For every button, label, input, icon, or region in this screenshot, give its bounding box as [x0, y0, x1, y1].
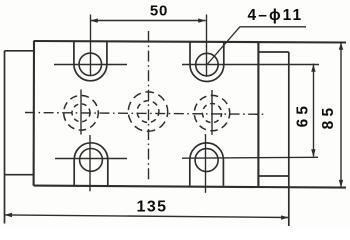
svg-text:65: 65	[294, 102, 311, 128]
dim 50 line	[90, 20, 205, 22]
dim 85 line	[340, 42, 342, 187]
plate bottom edge (with extension to 85 dim)	[34, 186, 346, 188]
middle horizontal dash-dot centerline	[25, 113, 266, 115]
bottom-left hole slot	[74, 143, 108, 186]
middle-center port hole inner dashed circle	[137, 101, 159, 123]
dim 65 top arrowhead	[311, 64, 315, 72]
dim 65 bottom arrowhead	[311, 149, 315, 157]
right flange outer edge + 135 extension	[288, 52, 290, 226]
dim 65 line	[313, 64, 315, 157]
plate left edge	[33, 41, 36, 186]
bottom-right hole circle	[195, 149, 218, 172]
leader line for 4-phi11	[207, 27, 306, 65]
bottom-left hole vertical centerline	[89, 135, 91, 191]
dim 135 line	[5, 215, 289, 218]
svg-text:50: 50	[150, 3, 168, 20]
middle-left port vertical centerline	[80, 90, 82, 135]
middle-center port hole outer dashed circle	[128, 92, 167, 131]
dim 85 bottom arrowhead	[339, 180, 343, 188]
top-right hole circle	[196, 53, 219, 76]
top-right hole vertical centerline / 50-dim extension	[206, 15, 208, 77]
top-right hole horizontal centerline / 65-dim top extension	[182, 64, 319, 66]
dim 135 left arrowhead	[5, 213, 13, 217]
middle-right port hole outer dashed circle	[194, 95, 229, 130]
plate right edge	[257, 41, 259, 186]
middle-center vertical dash-dot centerline	[148, 31, 150, 182]
top-left hole vertical centerline / 50-dim extension	[90, 15, 92, 76]
top-right hole slot	[190, 41, 224, 81]
bottom-left hole circle	[80, 149, 103, 172]
right flange bottom	[258, 175, 288, 177]
left flange top	[5, 50, 35, 52]
bottom-right hole vertical centerline	[205, 134, 207, 193]
svg-text:135: 135	[137, 198, 168, 215]
bottom-right hole slot	[190, 143, 224, 186]
top-left hole slot	[74, 41, 107, 81]
right flange top	[258, 51, 288, 53]
svg-text:4–ϕ11: 4–ϕ11	[248, 7, 304, 24]
dim 135 right arrowhead	[281, 215, 289, 219]
top-left hole horizontal centerline	[54, 64, 127, 66]
middle-right port vertical centerline	[211, 90, 213, 135]
middle-right port hole inner dashed circle	[202, 104, 221, 123]
middle-left port hole outer dashed circle	[64, 96, 99, 131]
middle-left port hole inner dashed circle	[72, 104, 90, 122]
left flange outer edge + 135 extension	[4, 51, 6, 224]
dim 50 right arrowhead	[198, 18, 206, 22]
bottom-left hole horizontal centerline	[55, 158, 127, 160]
bottom-right hole horizontal centerline / 65-dim bottom extension	[182, 156, 318, 159]
top-left hole circle	[79, 53, 102, 76]
svg-text:85: 85	[320, 104, 337, 130]
plate top edge (with extension to 85 dim)	[34, 41, 346, 43]
left flange bottom	[5, 174, 34, 176]
dim 85 top arrowhead	[339, 42, 343, 50]
dim 50 left arrowhead	[90, 18, 98, 22]
